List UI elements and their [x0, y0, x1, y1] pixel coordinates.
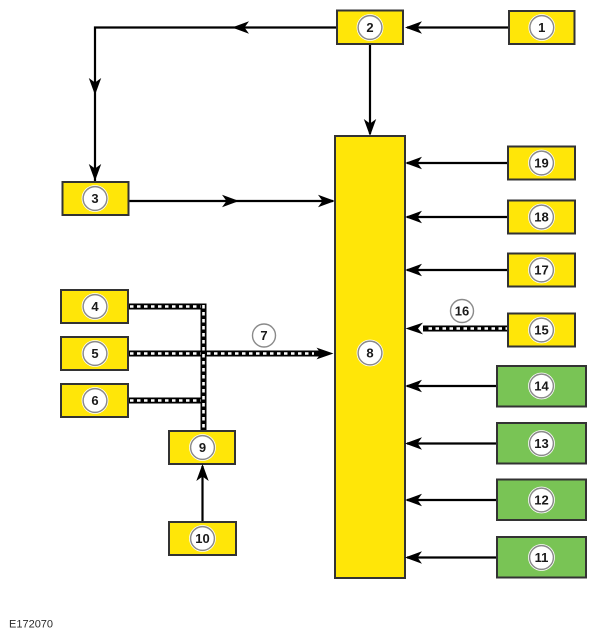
wire box10 up to box9	[196, 464, 208, 522]
svg-text:10: 10	[195, 531, 209, 546]
box 6	[61, 384, 128, 417]
box 11	[497, 537, 586, 578]
wire box11 to box8	[405, 551, 497, 563]
wire box2 down to box8	[364, 44, 376, 136]
svg-text:5: 5	[91, 346, 98, 361]
dashed wire 16 box15 to box8	[406, 323, 510, 335]
box 9	[169, 431, 235, 464]
svg-text:E172070: E172070	[9, 619, 53, 631]
svg-text:9: 9	[199, 440, 206, 455]
wire box13 to box8	[405, 437, 497, 449]
wire box14 to box8	[405, 380, 497, 392]
wire box19 to box8	[405, 157, 508, 169]
box 13	[497, 423, 586, 464]
wire box12 to box8	[405, 494, 497, 506]
svg-text:14: 14	[534, 379, 549, 394]
svg-text:13: 13	[534, 436, 548, 451]
dashed wire 7 box5 to box8	[129, 348, 334, 360]
figure number E172070	[9, 619, 53, 631]
box 4	[61, 290, 128, 323]
wire box3 to box8	[129, 195, 336, 207]
box 10	[169, 522, 236, 555]
svg-text:3: 3	[91, 191, 98, 206]
svg-text:15: 15	[534, 323, 548, 338]
svg-text:8: 8	[366, 346, 373, 361]
dashed bus vertical to box9	[201, 304, 207, 432]
svg-text:18: 18	[534, 210, 548, 225]
wire box17 to box8	[405, 264, 508, 276]
box 12	[497, 480, 586, 521]
wire box1 to box2	[405, 21, 509, 33]
box 8 central module	[335, 136, 405, 578]
svg-text:1: 1	[538, 20, 545, 35]
box 1	[509, 11, 575, 44]
svg-text:19: 19	[534, 156, 548, 171]
svg-text:12: 12	[534, 493, 548, 508]
svg-text:16: 16	[455, 304, 469, 319]
wire box18 to box8	[405, 211, 508, 223]
box 19	[508, 147, 575, 180]
box 5	[61, 337, 128, 370]
box 3	[63, 182, 129, 215]
dashed wire box4 to bus node	[129, 304, 207, 310]
box 15	[508, 314, 575, 347]
svg-text:7: 7	[260, 328, 267, 343]
dashed wire box6 to bus node	[129, 398, 207, 404]
box 18	[508, 201, 575, 234]
svg-text:2: 2	[366, 20, 373, 35]
box 17	[508, 254, 575, 287]
svg-text:6: 6	[91, 393, 98, 408]
svg-text:17: 17	[534, 263, 548, 278]
svg-text:11: 11	[535, 550, 549, 565]
node 7 label	[253, 324, 276, 347]
box 2	[337, 11, 403, 45]
node 16 label	[451, 300, 474, 323]
svg-text:4: 4	[91, 299, 99, 314]
wire box2 to top-left corner	[89, 21, 337, 181]
box 14	[497, 366, 586, 407]
